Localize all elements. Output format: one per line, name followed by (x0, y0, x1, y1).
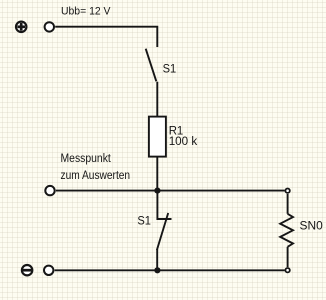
wire middle horizontal net (56, 190, 285, 192)
svg-text:100 k: 100 k (169, 134, 198, 148)
junction middle node (154, 188, 160, 194)
terminal minus (battery negative) (22, 265, 32, 275)
svg-text:S1: S1 (137, 214, 151, 228)
wire from middle node to switch S1 lower pivot (157, 191, 171, 219)
svg-text:Ubb= 12 V: Ubb= 12 V (61, 6, 111, 18)
wire from resistor SN0 to bottom pin (287, 247, 289, 267)
terminal bottom connector (44, 266, 53, 275)
resistor R1 body (149, 117, 166, 157)
switch S1 lower blade (157, 213, 168, 250)
resistor SN0 zigzag (280, 214, 293, 247)
switch S1 upper blade (146, 49, 157, 82)
svg-text:Messpunkt: Messpunkt (61, 151, 112, 165)
terminal Messpunkt (middle connector) (45, 186, 54, 195)
wire from Ubb terminal to switch S1 upper (55, 27, 157, 47)
junction bottom node (154, 267, 160, 273)
svg-text:S1: S1 (163, 61, 177, 75)
svg-text:zum Auswerten: zum Auswerten (61, 168, 131, 182)
pin SN0 top (285, 189, 289, 193)
wire from SN0 top pin to resistor SN0 (287, 194, 289, 214)
wire from R1 to middle node (156, 157, 158, 191)
wire bottom horizontal net (55, 269, 285, 271)
terminal plus (battery positive) (16, 22, 26, 32)
terminal Ubb (top connector) (45, 22, 54, 31)
svg-text:SN0: SN0 (300, 219, 323, 233)
wire from switch S1 lower to bottom node (156, 249, 158, 270)
pin SN0 bottom (285, 268, 289, 272)
wire from switch S1 upper to R1 (156, 82, 158, 117)
